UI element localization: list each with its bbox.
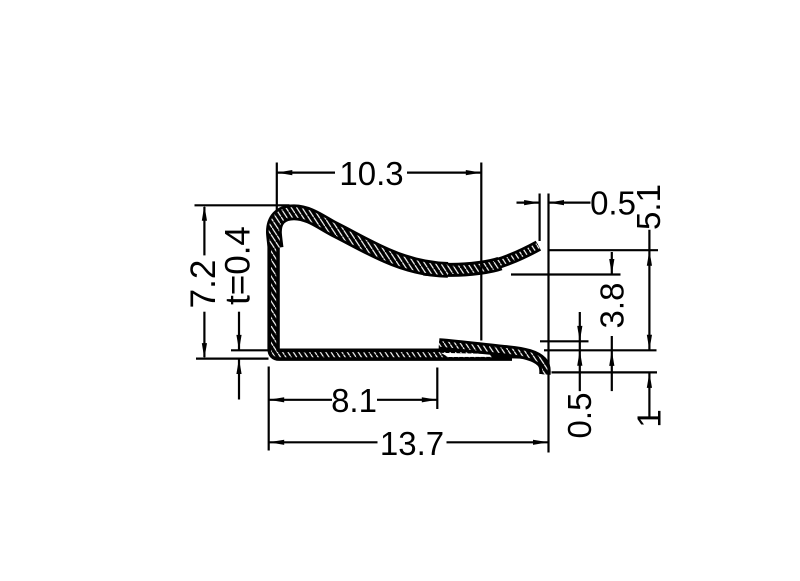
dimension 10.3 top	[277, 172, 335, 174]
svg-text:7.2: 7.2	[184, 260, 223, 309]
extension line bar top, left (t=0.4)	[231, 349, 269, 351]
extension line bottom-left (8.1 / 13.7)	[268, 367, 270, 451]
hatch core of strip/hook	[439, 344, 545, 375]
dimension 3.8 right	[611, 252, 613, 275]
extension line 8.1 right	[436, 368, 438, 410]
dimension 13.7 bottom	[269, 441, 378, 443]
spring arm full length to tip	[274, 212, 539, 270]
hatch core of wall and bar	[274, 236, 512, 355]
svg-text:1: 1	[631, 409, 668, 427]
dimension 0.5 bottom right (strip step)	[579, 312, 581, 391]
dimension 0.5 top right (arm tip offset)	[517, 202, 540, 204]
svg-text:3.8: 3.8	[593, 283, 630, 329]
dimension 8.1 bottom	[269, 399, 332, 401]
right outer extension line (0.5-top / 13.7)	[547, 194, 549, 453]
top hump and spring arm (thick section)	[274, 212, 448, 270]
extension line hook bottom (1)	[552, 371, 658, 373]
svg-text:0.5: 0.5	[561, 393, 598, 439]
dimension 1 bottom right (hook drop)	[648, 372, 650, 417]
bottom overlap strip with right hook	[439, 344, 545, 375]
dimension 5.1 right	[648, 230, 650, 351]
extension line arm tip level (5.1)	[550, 249, 659, 251]
extension line strip top at hook (0.5-bottom)	[540, 340, 589, 342]
metal profile: clip cross-section, left wall + bottom bar	[274, 236, 512, 355]
svg-text:10.3: 10.3	[339, 155, 403, 192]
svg-text:5.1: 5.1	[630, 184, 667, 230]
white gap wedge between bar and overlapping strip	[441, 353, 490, 357]
extension line arm valley level (3.8)	[511, 273, 621, 275]
svg-text:13.7: 13.7	[380, 425, 444, 462]
extension line top of profile (7.2)	[195, 204, 290, 206]
extension line bar top, right (5.1 / 3.8 / 1 / 0.5-bottom)	[544, 349, 657, 351]
dimension t=0.4 (material thickness)	[238, 312, 240, 351]
svg-text:t=0.4: t=0.4	[218, 226, 257, 305]
hatch core of hump/arm	[274, 212, 448, 270]
extension line 10.3 left	[276, 163, 278, 212]
extension line 10.3 right	[480, 163, 482, 341]
extension line bar bottom, left (7.2 / t=0.4)	[196, 358, 269, 360]
joint shadow under strip	[492, 356, 536, 357]
svg-text:8.1: 8.1	[331, 382, 377, 419]
dimension 7.2 left	[203, 207, 205, 256]
tick 0.5-top left (arm tip)	[538, 194, 540, 242]
